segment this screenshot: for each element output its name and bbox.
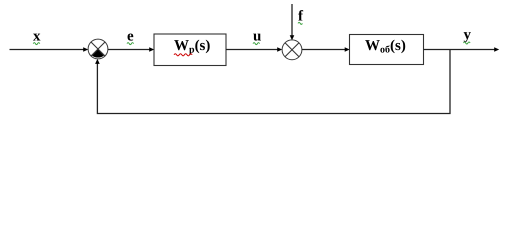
svg-text:x: x [33, 28, 41, 44]
wire: output y [424, 47, 500, 52]
svg-text:e: e [127, 28, 134, 44]
wire: disturbance f input (vertical, into S2 from top) [290, 4, 295, 40]
wire: e from S1 to block W_p [108, 47, 154, 52]
block W_p(s) (controller) [154, 34, 226, 66]
wire: u from W_p to summing junction S2 [226, 47, 282, 52]
node label e (with green spellcheck squiggle) [127, 28, 134, 44]
svg-text:y: y [464, 27, 472, 43]
block W_ob(s) (plant) [350, 35, 424, 65]
wire: S2 to block W_ob [302, 47, 350, 52]
node label u (with green spellcheck squiggle) [253, 28, 261, 44]
svg-text:u: u [253, 28, 261, 44]
summing junction S1 (comparator, bottom sector filled) [88, 39, 108, 59]
summing junction S2 [282, 40, 302, 60]
feedback wire: tap at output, down, left, up into S1 [95, 50, 450, 114]
node label f (with green spellcheck squiggle) [298, 8, 304, 24]
node label x (with green spellcheck squiggle) [33, 28, 41, 44]
wire: input x into summing junction S1 [10, 47, 89, 52]
node label y (with green spellcheck squiggle) [464, 27, 472, 44]
